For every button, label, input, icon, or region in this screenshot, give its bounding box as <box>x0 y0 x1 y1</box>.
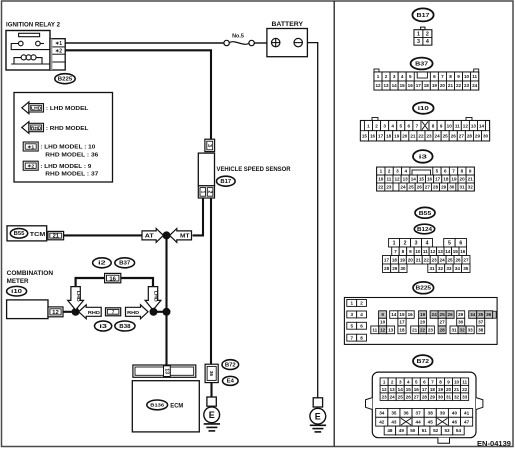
svg-text:21: 21 <box>412 328 418 333</box>
battery BT1 body <box>267 29 308 57</box>
svg-text:13: 13 <box>388 328 394 333</box>
svg-text:6: 6 <box>360 323 363 328</box>
svg-text:22: 22 <box>418 133 424 138</box>
svg-text:16: 16 <box>427 177 433 182</box>
svg-text:2: 2 <box>207 190 213 193</box>
svg-text:32: 32 <box>468 185 474 190</box>
svg-text:37: 37 <box>416 411 422 416</box>
svg-text:31: 31 <box>446 394 452 399</box>
svg-text:EN-04139: EN-04139 <box>477 441 511 448</box>
svg-text:47: 47 <box>464 419 470 424</box>
svg-text:42: 42 <box>379 419 385 424</box>
svg-text:32: 32 <box>438 266 444 271</box>
TCM designator B55 <box>10 229 27 239</box>
svg-text:MT: MT <box>180 233 190 239</box>
vehicle speed sensor body <box>198 153 214 186</box>
svg-text:31: 31 <box>429 266 435 271</box>
svg-text:12: 12 <box>375 83 381 88</box>
svg-text:18: 18 <box>424 83 430 88</box>
svg-text:24: 24 <box>440 257 446 262</box>
svg-text:33: 33 <box>446 266 452 271</box>
svg-text:17: 17 <box>435 177 441 182</box>
svg-text:35: 35 <box>463 266 469 271</box>
legend *1 box <box>23 142 38 151</box>
svg-text:TCM: TCM <box>30 232 46 238</box>
svg-text:14: 14 <box>479 123 485 128</box>
svg-text:6: 6 <box>459 241 462 247</box>
svg-text:32: 32 <box>454 394 460 399</box>
svg-text:12: 12 <box>463 123 469 128</box>
designator B72 <box>222 360 239 370</box>
battery positive terminal <box>272 38 280 46</box>
pinout designator i10 <box>413 102 434 113</box>
svg-text:1: 1 <box>377 74 380 79</box>
relay K1 contact stub <box>40 43 44 45</box>
svg-text:28: 28 <box>440 328 446 333</box>
svg-text:13: 13 <box>163 368 169 374</box>
wire TCM to AT arrow <box>64 234 142 236</box>
svg-text:COMBINATION: COMBINATION <box>7 270 54 277</box>
svg-text:34: 34 <box>379 411 385 416</box>
svg-text:11: 11 <box>372 328 377 333</box>
svg-text:26: 26 <box>455 257 461 262</box>
wire trunk to ECM <box>165 312 167 365</box>
svg-text:: LHD MODEL: : LHD MODEL <box>46 106 89 112</box>
svg-text:13: 13 <box>438 249 444 254</box>
wire sensor pin 2 to connector <box>210 198 212 364</box>
svg-text:31: 31 <box>460 185 466 190</box>
pinout connector B37 <box>374 69 479 90</box>
relay K1 contact right <box>36 41 41 46</box>
svg-text:7: 7 <box>394 249 397 254</box>
svg-text:19: 19 <box>451 177 457 182</box>
svg-text:18: 18 <box>443 177 449 182</box>
svg-text:B37: B37 <box>119 261 130 267</box>
svg-text:21: 21 <box>468 177 474 182</box>
wire meter junction link <box>154 311 167 313</box>
svg-text:23: 23 <box>464 83 470 88</box>
wire sensor pin 1 down <box>193 198 204 235</box>
svg-text:9: 9 <box>409 249 412 254</box>
svg-text:14: 14 <box>392 83 398 88</box>
svg-text:16: 16 <box>370 133 376 138</box>
pinout connector B72 <box>366 372 483 443</box>
svg-text:26: 26 <box>417 185 423 190</box>
pinout designator B72 <box>413 355 433 367</box>
ground E2 hatching <box>310 424 326 426</box>
svg-text:20: 20 <box>460 177 466 182</box>
svg-text:23: 23 <box>386 185 392 190</box>
svg-text:19: 19 <box>438 387 444 392</box>
svg-text:5: 5 <box>350 323 353 328</box>
svg-text:43: 43 <box>391 419 397 424</box>
svg-text:37: 37 <box>478 320 484 325</box>
svg-text:10: 10 <box>464 74 470 79</box>
wire top bypass path <box>76 278 153 287</box>
svg-text:i3: i3 <box>99 324 107 330</box>
pinout designator B225 <box>413 282 434 294</box>
svg-text:22: 22 <box>378 185 384 190</box>
svg-text:1: 1 <box>417 32 420 38</box>
svg-text:23: 23 <box>426 133 432 138</box>
svg-text:21: 21 <box>410 133 416 138</box>
svg-text:22: 22 <box>420 328 426 333</box>
legend RHD arrow <box>22 122 29 134</box>
svg-text:19: 19 <box>432 83 438 88</box>
svg-text:10: 10 <box>454 379 460 384</box>
LHD arrow left <box>68 287 84 310</box>
svg-text:30: 30 <box>400 266 406 271</box>
wire trunk AT junction down <box>165 235 167 311</box>
svg-text:30: 30 <box>438 394 444 399</box>
relay K1 body <box>6 31 50 71</box>
svg-text:2: 2 <box>388 169 391 174</box>
meter designator i10 <box>7 286 27 296</box>
ECM connector strip <box>133 365 196 377</box>
svg-text:12: 12 <box>52 310 59 316</box>
designator E4 <box>223 376 239 385</box>
svg-text:9: 9 <box>381 312 384 317</box>
svg-text:25: 25 <box>448 257 454 262</box>
pinout connector B55/B124 <box>383 239 471 273</box>
svg-text:7: 7 <box>416 123 419 128</box>
svg-text:28: 28 <box>467 133 473 138</box>
RHD arrow left <box>79 305 102 319</box>
svg-text:7: 7 <box>452 169 455 174</box>
relay K1 armature bar <box>19 33 40 36</box>
svg-text:33: 33 <box>462 394 468 399</box>
legend box <box>14 93 113 183</box>
inline connector B72/E4 <box>205 364 218 382</box>
svg-text:B225: B225 <box>58 77 73 83</box>
svg-text:1: 1 <box>383 379 386 384</box>
svg-text:RHD MODEL : 36: RHD MODEL : 36 <box>45 152 99 158</box>
TCM pin 21 <box>48 231 64 239</box>
relay K1 contact wiring <box>11 44 50 50</box>
svg-text:34: 34 <box>470 312 476 317</box>
designator B37 inline <box>115 258 135 268</box>
svg-text:16: 16 <box>408 83 414 88</box>
svg-text:RHD: RHD <box>127 310 140 316</box>
svg-text:30: 30 <box>458 320 464 325</box>
designator i3 <box>95 321 112 331</box>
relay K1 coil <box>21 55 36 60</box>
svg-text:4: 4 <box>360 312 363 317</box>
svg-text:LHD: LHD <box>153 291 159 303</box>
svg-text:35: 35 <box>391 411 397 416</box>
svg-text:B72: B72 <box>225 362 236 368</box>
svg-text:5: 5 <box>399 123 402 128</box>
svg-text:4: 4 <box>407 379 410 384</box>
svg-text:2: 2 <box>391 379 394 384</box>
pinout connector B225 <box>344 298 497 345</box>
relay K1 coil wiring <box>11 58 50 64</box>
svg-text:27: 27 <box>463 257 469 262</box>
svg-text:31: 31 <box>451 328 457 333</box>
svg-text:4: 4 <box>404 169 407 174</box>
svg-text:23: 23 <box>432 257 438 262</box>
svg-text:RHD MODEL : 37: RHD MODEL : 37 <box>45 172 98 178</box>
svg-text:17: 17 <box>384 257 390 262</box>
svg-text:15: 15 <box>400 83 406 88</box>
combination meter box <box>7 300 48 319</box>
svg-text:8: 8 <box>449 74 452 79</box>
svg-text:B55: B55 <box>14 231 25 237</box>
svg-text:3: 3 <box>399 379 402 384</box>
svg-text:28: 28 <box>422 394 428 399</box>
battery negative terminal <box>294 38 302 46</box>
svg-text:ECM: ECM <box>170 402 183 409</box>
svg-text:7: 7 <box>431 379 434 384</box>
wire connector to ground E <box>210 383 212 397</box>
designator i2 <box>93 258 112 268</box>
svg-text:RHD: RHD <box>31 125 41 130</box>
svg-text:38: 38 <box>478 328 484 333</box>
svg-text:3: 3 <box>417 39 420 45</box>
svg-text:39: 39 <box>440 411 446 416</box>
svg-text:25: 25 <box>409 185 415 190</box>
svg-text:3: 3 <box>415 241 418 247</box>
svg-text:21: 21 <box>416 257 422 262</box>
svg-text:18: 18 <box>392 257 398 262</box>
ground E circle <box>204 407 220 423</box>
svg-text:✶2: ✶2 <box>27 164 35 169</box>
svg-text:12: 12 <box>380 328 386 333</box>
svg-text:2: 2 <box>360 301 363 306</box>
meter pin 12 <box>48 307 63 317</box>
wire fuse to battery <box>254 42 267 44</box>
svg-text:20: 20 <box>440 83 446 88</box>
svg-text:B38: B38 <box>119 324 130 330</box>
svg-text:20: 20 <box>402 133 408 138</box>
svg-text:24: 24 <box>472 83 478 88</box>
svg-text:E: E <box>209 410 215 420</box>
svg-text:19: 19 <box>394 133 400 138</box>
svg-text:: RHD MODEL: : RHD MODEL <box>46 126 89 132</box>
svg-text:27: 27 <box>425 185 431 190</box>
ECM pin 13 <box>164 366 171 377</box>
RHD pin 7 <box>106 308 121 316</box>
svg-text:B37: B37 <box>415 62 428 68</box>
svg-text:11: 11 <box>386 177 391 182</box>
svg-text:10: 10 <box>447 123 453 128</box>
svg-text:24: 24 <box>435 133 441 138</box>
svg-text:16: 16 <box>460 249 466 254</box>
svg-text:8: 8 <box>402 249 405 254</box>
svg-text:11: 11 <box>462 379 467 384</box>
svg-text:2: 2 <box>375 123 378 128</box>
svg-text:RHD: RHD <box>88 310 101 316</box>
svg-text:54: 54 <box>456 428 462 433</box>
svg-text:i3: i3 <box>419 154 428 160</box>
junction dot trunk <box>163 308 171 316</box>
svg-text:41: 41 <box>464 411 470 416</box>
svg-text:16: 16 <box>414 387 420 392</box>
sensor designator B17 <box>217 176 236 186</box>
svg-text:15: 15 <box>399 312 405 317</box>
svg-text:5: 5 <box>448 241 451 247</box>
svg-text:8: 8 <box>432 123 435 128</box>
panel divider line <box>333 1 335 447</box>
svg-text:E: E <box>315 411 321 421</box>
svg-text:3: 3 <box>350 312 353 317</box>
svg-text:B55: B55 <box>419 211 432 217</box>
svg-text:24: 24 <box>390 394 396 399</box>
svg-text:LHD: LHD <box>75 291 81 303</box>
svg-text:15: 15 <box>453 249 459 254</box>
svg-text:5: 5 <box>436 169 439 174</box>
svg-text:2: 2 <box>385 74 388 79</box>
svg-text:10: 10 <box>415 249 421 254</box>
svg-text:7: 7 <box>441 74 444 79</box>
ground E2 terminal square <box>313 398 322 407</box>
svg-text:9: 9 <box>440 123 443 128</box>
legend *2 box <box>23 161 38 170</box>
svg-text:53: 53 <box>445 428 451 433</box>
svg-text:12: 12 <box>430 249 436 254</box>
svg-text:No.5: No.5 <box>232 34 244 40</box>
legend LHD arrow <box>22 102 29 114</box>
svg-text:3: 3 <box>396 169 399 174</box>
fuse No.5 <box>224 40 254 45</box>
svg-text:34: 34 <box>455 266 461 271</box>
svg-text:16: 16 <box>109 276 116 282</box>
svg-text:17: 17 <box>378 133 384 138</box>
svg-text:4: 4 <box>426 39 429 45</box>
svg-text:27: 27 <box>414 394 420 399</box>
pinout designator B124 <box>414 224 434 234</box>
svg-text:9: 9 <box>457 74 460 79</box>
svg-text:19: 19 <box>420 312 426 317</box>
svg-text:29: 29 <box>475 133 481 138</box>
svg-text:2: 2 <box>426 32 429 38</box>
svg-text:6: 6 <box>444 169 447 174</box>
svg-text:4: 4 <box>401 74 404 79</box>
svg-text:: LHD MODEL : 9: : LHD MODEL : 9 <box>40 164 92 170</box>
pinout designator B37 <box>411 58 433 70</box>
svg-text:48: 48 <box>387 428 393 433</box>
wire relay *2 to sensor <box>65 50 211 139</box>
svg-text:3: 3 <box>383 123 386 128</box>
svg-text:17: 17 <box>399 320 405 325</box>
svg-text:24: 24 <box>432 312 438 317</box>
vehicle speed sensor top pin 3 <box>205 139 215 151</box>
svg-text:8: 8 <box>461 169 464 174</box>
svg-text:B17: B17 <box>220 179 231 185</box>
connector designator B225 <box>55 74 75 84</box>
svg-text:B136: B136 <box>150 403 164 409</box>
svg-text:26: 26 <box>448 312 454 317</box>
svg-text:45: 45 <box>428 419 434 424</box>
svg-text:36: 36 <box>486 312 492 317</box>
svg-text:14: 14 <box>398 387 404 392</box>
junction dot left meter <box>72 308 80 316</box>
wire meter to junction <box>63 311 76 313</box>
MT arrow <box>170 229 192 243</box>
svg-text:50: 50 <box>410 428 416 433</box>
svg-text:B17: B17 <box>417 13 430 19</box>
svg-text:22: 22 <box>462 387 468 392</box>
svg-text:5: 5 <box>415 379 418 384</box>
svg-text:27: 27 <box>459 133 465 138</box>
svg-text:2: 2 <box>404 241 407 247</box>
svg-text:5: 5 <box>409 74 412 79</box>
svg-text:6: 6 <box>433 74 436 79</box>
svg-text:20: 20 <box>420 320 426 325</box>
svg-text:1: 1 <box>367 123 370 128</box>
svg-text:11: 11 <box>472 74 477 79</box>
svg-text:23: 23 <box>382 394 388 399</box>
ground E terminal square <box>207 397 216 406</box>
svg-text:11: 11 <box>423 249 428 254</box>
svg-text:15: 15 <box>362 133 368 138</box>
svg-text:✶2: ✶2 <box>55 48 62 54</box>
svg-text:1: 1 <box>380 169 383 174</box>
svg-text:16: 16 <box>408 312 414 317</box>
pinout designator B17 <box>412 8 433 21</box>
svg-text:13: 13 <box>403 177 409 182</box>
pinout connector B17 <box>421 27 425 30</box>
svg-text:IGNITION RELAY 2: IGNITION RELAY 2 <box>6 22 60 29</box>
svg-text:26: 26 <box>406 394 412 399</box>
svg-text:51: 51 <box>422 428 428 433</box>
svg-text:52: 52 <box>433 428 439 433</box>
svg-text:28: 28 <box>384 266 390 271</box>
svg-text:11: 11 <box>455 123 460 128</box>
svg-text:4: 4 <box>426 241 429 247</box>
svg-text:9: 9 <box>469 169 472 174</box>
svg-text:25: 25 <box>440 312 446 317</box>
svg-text:20: 20 <box>446 387 452 392</box>
pinout designator i3 <box>413 150 433 163</box>
ground E hatching <box>204 423 220 425</box>
svg-text:28: 28 <box>433 185 439 190</box>
svg-text:VEHICLE SPEED SENSOR: VEHICLE SPEED SENSOR <box>217 166 291 173</box>
svg-text:10: 10 <box>378 177 384 182</box>
svg-text:33: 33 <box>468 328 474 333</box>
pinout designator B55 <box>415 207 435 218</box>
svg-text:22: 22 <box>456 83 462 88</box>
svg-text:1: 1 <box>350 301 353 306</box>
svg-text:9: 9 <box>447 379 450 384</box>
svg-text:18: 18 <box>386 133 392 138</box>
svg-text:i10: i10 <box>418 106 429 112</box>
bypass pin 16 <box>105 273 121 282</box>
svg-text:i10: i10 <box>11 289 22 295</box>
svg-text:14: 14 <box>411 177 417 182</box>
svg-text:E4: E4 <box>227 379 234 385</box>
pinout connector i3 <box>377 167 475 191</box>
svg-text:15: 15 <box>419 177 425 182</box>
svg-text:26: 26 <box>451 133 457 138</box>
svg-text:✶1: ✶1 <box>55 41 62 47</box>
ECM box <box>132 381 199 432</box>
svg-text:B225: B225 <box>416 286 432 292</box>
svg-text:46: 46 <box>452 419 458 424</box>
svg-text:7: 7 <box>350 335 353 340</box>
svg-text:38: 38 <box>428 411 434 416</box>
svg-text:21: 21 <box>448 83 454 88</box>
svg-text:14: 14 <box>391 312 397 317</box>
svg-text:1: 1 <box>199 190 205 193</box>
svg-text:24: 24 <box>400 185 406 190</box>
svg-text:AT: AT <box>145 233 154 239</box>
ground E2 circle <box>310 408 326 424</box>
junction dot right meter <box>150 308 158 316</box>
svg-text:13: 13 <box>471 123 477 128</box>
svg-text:17: 17 <box>416 83 422 88</box>
LHD arrow right <box>145 287 161 310</box>
